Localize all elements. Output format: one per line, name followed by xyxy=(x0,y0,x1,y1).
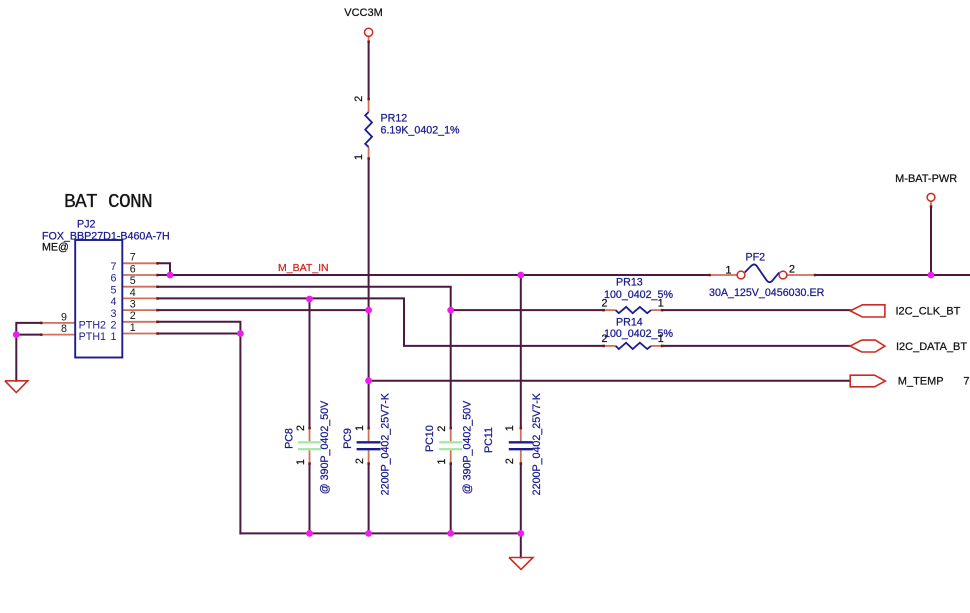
svg-text:7: 7 xyxy=(130,252,136,264)
svg-text:2: 2 xyxy=(295,425,307,431)
svg-text:@ 390P_0402_50V: @ 390P_0402_50V xyxy=(461,400,473,494)
svg-text:6: 6 xyxy=(111,273,117,285)
svg-text:@ 390P_0402_50V: @ 390P_0402_50V xyxy=(319,400,331,494)
svg-text:6: 6 xyxy=(130,263,136,275)
svg-text:M_TEMP: M_TEMP xyxy=(898,376,944,388)
svg-text:1: 1 xyxy=(354,425,366,431)
svg-text:M-BAT-PWR: M-BAT-PWR xyxy=(895,173,957,185)
svg-text:1: 1 xyxy=(353,154,365,160)
svg-text:I2C_CLK_BT: I2C_CLK_BT xyxy=(896,305,961,317)
svg-text:1: 1 xyxy=(658,298,664,310)
svg-text:4: 4 xyxy=(111,296,117,308)
svg-text:PC8: PC8 xyxy=(283,428,295,449)
svg-text:PF2: PF2 xyxy=(746,252,766,264)
svg-text:1: 1 xyxy=(504,425,516,431)
svg-text:ME@: ME@ xyxy=(42,242,69,254)
svg-text:PC10: PC10 xyxy=(424,425,436,452)
svg-text:6.19K_0402_1%: 6.19K_0402_1% xyxy=(381,125,461,137)
svg-text:1: 1 xyxy=(130,322,136,334)
svg-text:I2C_DATA_BT: I2C_DATA_BT xyxy=(896,341,967,353)
svg-text:2: 2 xyxy=(354,458,366,464)
svg-text:2200P_0402_25V7-K: 2200P_0402_25V7-K xyxy=(379,392,391,495)
svg-text:1: 1 xyxy=(295,459,307,465)
svg-text:1: 1 xyxy=(658,333,664,345)
svg-text:9: 9 xyxy=(61,311,67,323)
svg-text:1: 1 xyxy=(436,458,448,464)
svg-text:PR12: PR12 xyxy=(381,113,408,125)
svg-text:1: 1 xyxy=(111,331,117,343)
svg-text:PR13: PR13 xyxy=(616,277,643,289)
svg-text:PC9: PC9 xyxy=(342,428,354,449)
svg-text:VCC3M: VCC3M xyxy=(344,7,383,19)
svg-text:BAT CONN: BAT CONN xyxy=(64,191,152,213)
svg-text:2: 2 xyxy=(130,310,136,322)
svg-text:5: 5 xyxy=(130,275,136,287)
svg-text:2: 2 xyxy=(111,320,117,332)
svg-text:PTH1: PTH1 xyxy=(79,331,106,343)
svg-text:1: 1 xyxy=(726,264,732,276)
svg-text:8: 8 xyxy=(61,323,67,335)
svg-text:5: 5 xyxy=(111,284,117,296)
svg-text:PR14: PR14 xyxy=(616,317,643,329)
svg-text:PC11: PC11 xyxy=(483,427,495,453)
svg-text:2: 2 xyxy=(602,333,608,345)
svg-text:2: 2 xyxy=(504,458,516,464)
svg-text:3: 3 xyxy=(111,308,117,320)
svg-text:4: 4 xyxy=(130,287,136,299)
svg-text:2: 2 xyxy=(436,426,448,432)
svg-text:2: 2 xyxy=(602,298,608,310)
svg-text:2: 2 xyxy=(789,264,795,276)
svg-text:7: 7 xyxy=(111,261,117,273)
svg-text:2200P_0402_25V7-K: 2200P_0402_25V7-K xyxy=(531,392,543,495)
svg-text:3: 3 xyxy=(130,299,136,311)
svg-text:30A_125V_0456030.ER: 30A_125V_0456030.ER xyxy=(709,287,825,299)
svg-text:7: 7 xyxy=(963,376,969,388)
svg-text:PJ2: PJ2 xyxy=(77,219,95,231)
svg-text:M_BAT_IN: M_BAT_IN xyxy=(278,262,329,274)
svg-text:2: 2 xyxy=(353,96,365,102)
svg-text:PTH2: PTH2 xyxy=(79,320,106,332)
